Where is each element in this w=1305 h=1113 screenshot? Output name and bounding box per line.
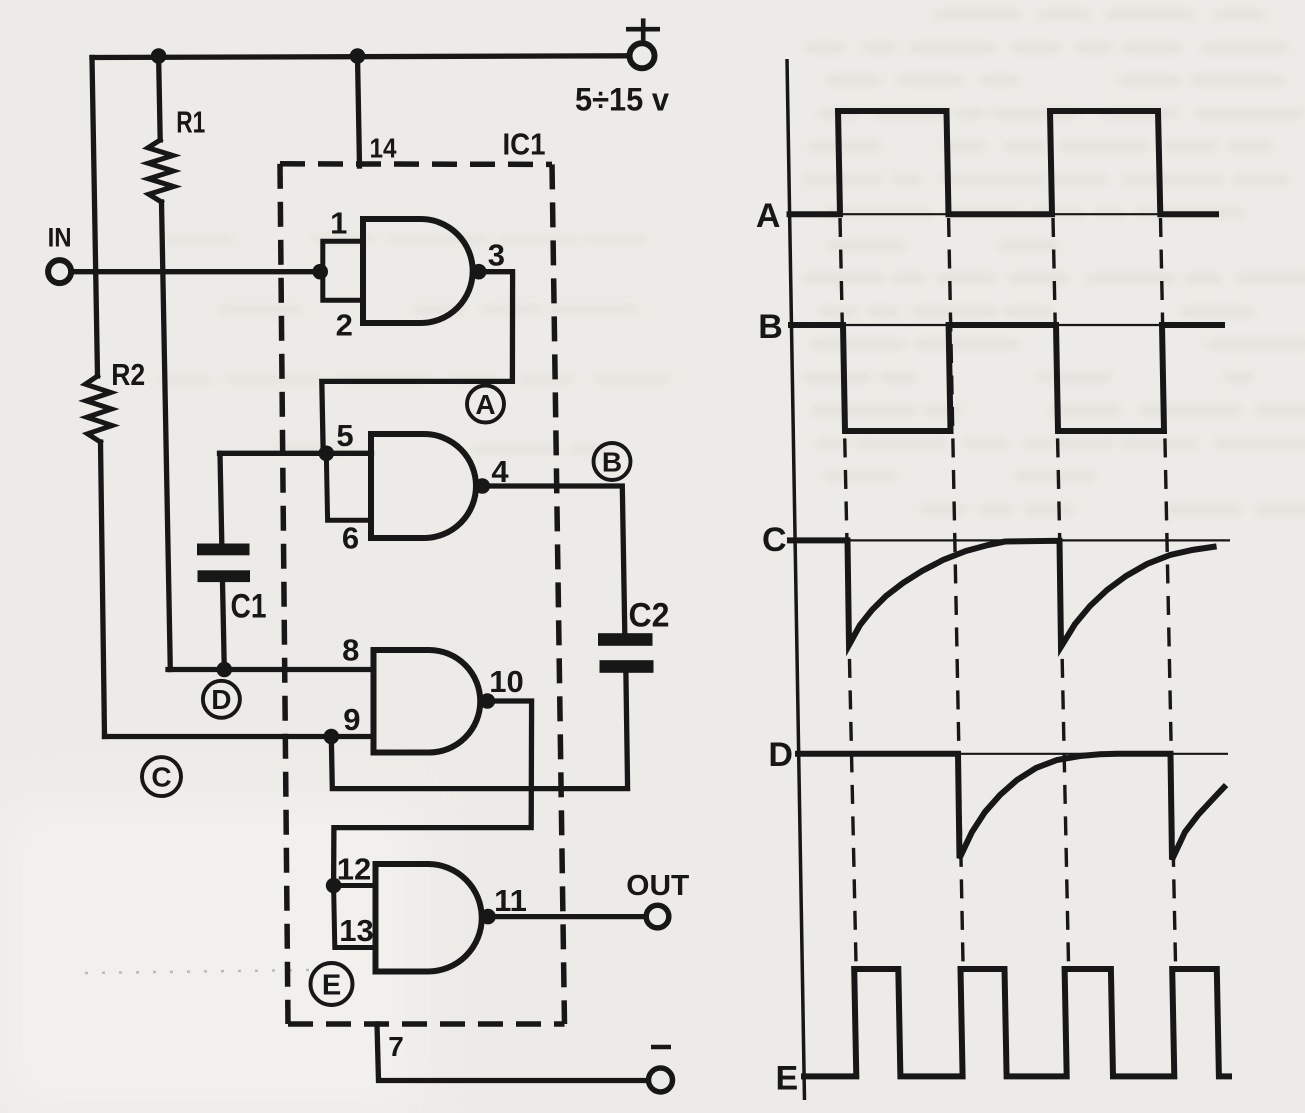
svg-text:13: 13 <box>339 913 373 948</box>
wire gate4 output to OUT <box>494 914 646 919</box>
svg-text:4: 4 <box>491 454 509 489</box>
svg-text:D: D <box>768 736 793 774</box>
junction gate2 output pin4 <box>475 478 491 494</box>
svg-text:5: 5 <box>336 418 353 453</box>
wire pin7 from IC box to ground terminal <box>377 1024 648 1081</box>
waveform C thin baseline <box>794 539 1231 541</box>
svg-text:E: E <box>322 969 341 1001</box>
junction node pin9 <box>324 729 340 745</box>
wire R1 column top <box>159 56 161 140</box>
node D <box>203 681 240 718</box>
minus sign <box>651 1045 671 1050</box>
wire C1 top lead <box>220 453 222 543</box>
svg-text:2: 2 <box>336 308 353 343</box>
gate U1D (NAND pins 12,13 -> 11) <box>376 864 482 972</box>
waveform B thin baseline <box>791 324 1222 326</box>
gate U1C (NAND pins 8,9 -> 10) <box>374 650 481 753</box>
IC1 dashed box top edge <box>280 161 552 167</box>
wire gate1 output feedback to gate2 input <box>322 272 513 454</box>
waveform D thin baseline <box>798 753 1228 755</box>
gate4 input tie bracket pins 12-13 <box>334 886 376 948</box>
waveform A trace <box>790 111 1217 214</box>
svg-text:6: 6 <box>342 520 359 555</box>
terminal +V supply <box>630 43 655 68</box>
junction gate4 input pin12 <box>326 878 342 894</box>
svg-text:1: 1 <box>330 206 347 241</box>
wire node D row: R1 col to gate3 pin8 <box>168 667 373 672</box>
terminal ground (minus) <box>649 1068 673 1092</box>
junction node D (C1/R1/pin8) <box>217 662 233 678</box>
svg-text:R1: R1 <box>176 104 205 139</box>
node A <box>467 386 504 423</box>
junction gate4 output pin11 <box>480 909 496 925</box>
node E <box>311 963 353 1005</box>
waveform E trace <box>804 969 1229 1076</box>
svg-text:R2: R2 <box>111 357 145 392</box>
svg-text:3: 3 <box>488 238 505 273</box>
svg-text:C: C <box>151 762 171 793</box>
timing dashed line t4 <box>1161 218 1176 963</box>
junction gate1 input node <box>312 264 328 280</box>
junction gate1 output pin3 <box>471 264 487 280</box>
junction top rail / R1 <box>151 48 167 64</box>
plus sign <box>626 18 660 40</box>
timing dashed line t3 <box>1053 218 1069 963</box>
waveform B trace <box>791 325 1222 431</box>
svg-text:C: C <box>762 521 787 559</box>
svg-text:10: 10 <box>489 664 523 699</box>
junction gate2 input pin5 <box>319 446 335 462</box>
gate1 input tie bracket pins 1-2 <box>323 241 363 300</box>
gate2 input tie bracket pins 5-6 <box>326 453 371 520</box>
svg-text:7: 7 <box>388 1031 404 1062</box>
terminal IN <box>48 260 71 283</box>
timing dashed line t1 <box>840 218 856 963</box>
wire pin14 from rail to IC box <box>358 56 360 166</box>
capacitor C1 <box>197 544 250 583</box>
resistor R1 <box>148 140 174 202</box>
svg-text:OUT: OUT <box>626 870 689 902</box>
wire pin9 row from left column to gate3 <box>105 734 374 739</box>
junction top rail / pin14 <box>350 48 366 64</box>
wire gate3 output to gate4 input <box>334 701 532 886</box>
svg-text:C2: C2 <box>629 596 670 634</box>
svg-text:IC1: IC1 <box>503 127 546 162</box>
svg-text:11: 11 <box>494 883 527 918</box>
junction gate3 output pin10 <box>480 693 496 709</box>
svg-text:B: B <box>758 308 783 346</box>
IC1 dashed box bottom edge <box>288 1021 565 1027</box>
wire C1 bottom lead to node D <box>223 582 225 670</box>
wire C1 top to gate2 pin5 <box>220 451 372 456</box>
svg-text:E: E <box>776 1059 799 1097</box>
svg-text:A: A <box>475 389 495 420</box>
waveform C trace <box>790 540 1214 646</box>
wire IN to gate1 input <box>74 269 321 274</box>
svg-text:5÷15 v: 5÷15 v <box>575 82 669 118</box>
wire R1 column bottom to node D row <box>162 202 171 670</box>
svg-text:IN: IN <box>48 222 72 252</box>
timing dashed line t2 <box>949 218 963 963</box>
wire left branch (IN/R2 column) <box>92 58 98 377</box>
gate U1A (NAND pins 1,2 -> 3) <box>363 219 473 323</box>
wire top supply rail <box>92 56 627 58</box>
terminal OUT <box>646 905 669 928</box>
svg-text:9: 9 <box>343 702 360 737</box>
svg-text:D: D <box>211 684 231 715</box>
svg-text:12: 12 <box>337 852 371 887</box>
gate4 pin12 stub <box>334 883 376 888</box>
IC1 dashed box right edge <box>552 164 565 1024</box>
wire C2 bottom to pin9 node <box>331 673 627 789</box>
node C <box>142 757 181 796</box>
gate U1B (NAND pins 5,6 -> 4) <box>371 434 476 538</box>
IC1 dashed box left edge <box>280 164 288 1024</box>
svg-text:C1: C1 <box>231 588 267 626</box>
waveform A thin baseline <box>789 213 1216 215</box>
node B <box>594 443 631 480</box>
waveform D trace <box>798 754 1224 860</box>
capacitor C2 <box>598 633 654 673</box>
resistor R2 <box>85 376 112 442</box>
svg-text:A: A <box>756 197 781 235</box>
svg-text:8: 8 <box>342 632 359 667</box>
svg-text:14: 14 <box>370 132 397 163</box>
svg-text:B: B <box>602 446 622 477</box>
waveform axis <box>787 59 805 1100</box>
wire gate2 output to node B / C2 <box>489 486 625 634</box>
